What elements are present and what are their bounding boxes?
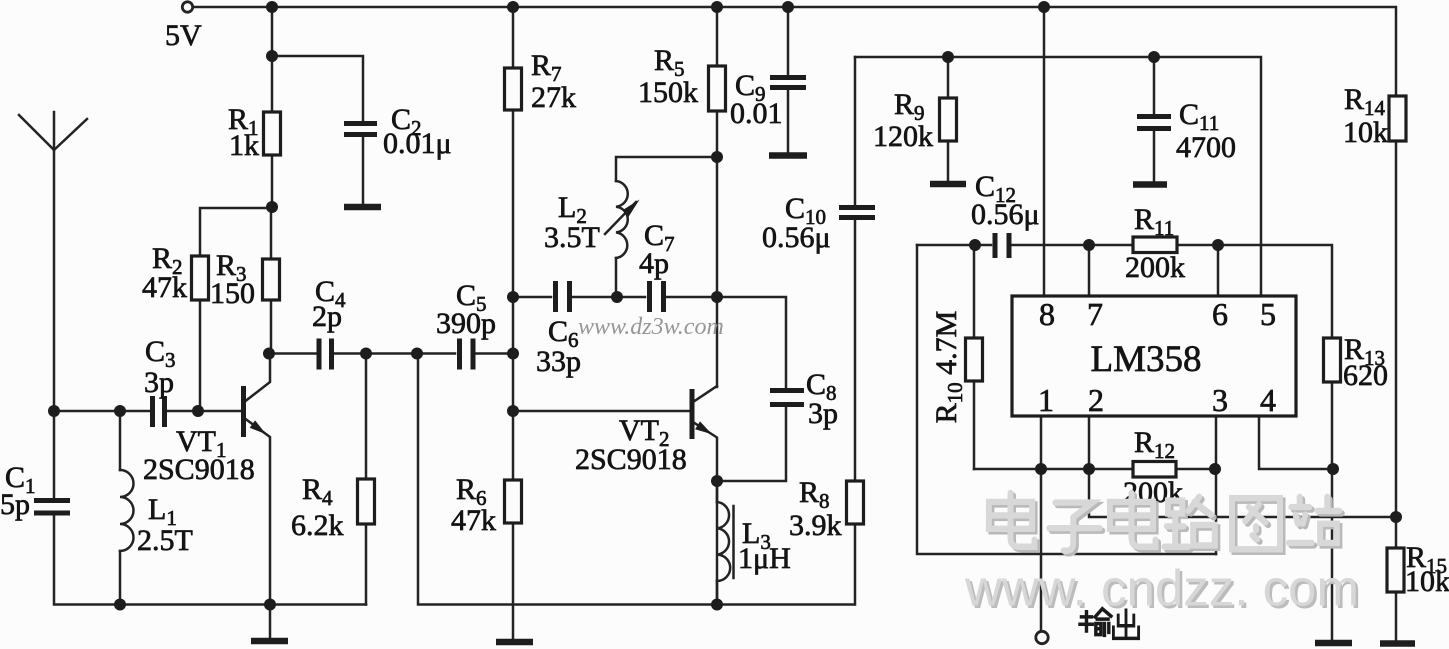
svg-text:5V: 5V: [165, 19, 202, 52]
svg-text:0.01: 0.01: [730, 97, 783, 130]
svg-text:1: 1: [1038, 382, 1054, 418]
svg-text:2: 2: [1088, 382, 1104, 418]
svg-text:3p: 3p: [144, 366, 174, 399]
svg-text:27k: 27k: [531, 81, 576, 114]
svg-text:620: 620: [1343, 359, 1388, 392]
svg-text:www. cndzz. com: www. cndzz. com: [964, 560, 1359, 617]
svg-text:2p: 2p: [312, 300, 342, 333]
svg-text:0.56μ: 0.56μ: [762, 221, 831, 254]
svg-text:www.dz3w.com: www.dz3w.com: [578, 314, 724, 340]
svg-text:1μH: 1μH: [738, 542, 791, 575]
svg-text:LM358: LM358: [1091, 339, 1202, 380]
svg-text:4: 4: [1260, 382, 1276, 418]
svg-text:5: 5: [1260, 296, 1276, 332]
svg-text:6.2k: 6.2k: [291, 509, 344, 542]
svg-text:150: 150: [210, 277, 255, 310]
svg-text:390p: 390p: [436, 307, 496, 340]
svg-text:6: 6: [1212, 296, 1228, 332]
svg-text:2SC9018: 2SC9018: [575, 443, 687, 476]
svg-text:2SC9018: 2SC9018: [143, 453, 255, 486]
svg-text:200k: 200k: [1125, 251, 1185, 284]
svg-text:0.56μ: 0.56μ: [971, 198, 1040, 231]
svg-text:3p: 3p: [808, 397, 838, 430]
svg-text:47k: 47k: [451, 504, 496, 537]
svg-text:3.9k: 3.9k: [789, 509, 842, 542]
svg-text:4p: 4p: [639, 247, 669, 280]
svg-text:47k: 47k: [142, 271, 187, 304]
svg-text:0.01μ: 0.01μ: [383, 127, 452, 160]
svg-text:8: 8: [1039, 296, 1055, 332]
svg-text:2.5T: 2.5T: [137, 524, 193, 557]
svg-text:1k: 1k: [229, 129, 259, 162]
svg-text:10k: 10k: [1343, 116, 1388, 149]
svg-text:3: 3: [1212, 382, 1228, 418]
svg-text:120k: 120k: [873, 120, 933, 153]
svg-text:33p: 33p: [536, 345, 581, 378]
svg-text:7: 7: [1087, 296, 1103, 332]
svg-text:R10 4.7M: R10 4.7M: [930, 311, 967, 424]
svg-text:150k: 150k: [638, 76, 698, 109]
svg-text:4700: 4700: [1176, 131, 1236, 164]
svg-text:3.5T: 3.5T: [544, 221, 600, 254]
svg-text:5p: 5p: [0, 488, 30, 521]
svg-text:10k: 10k: [1405, 565, 1449, 598]
